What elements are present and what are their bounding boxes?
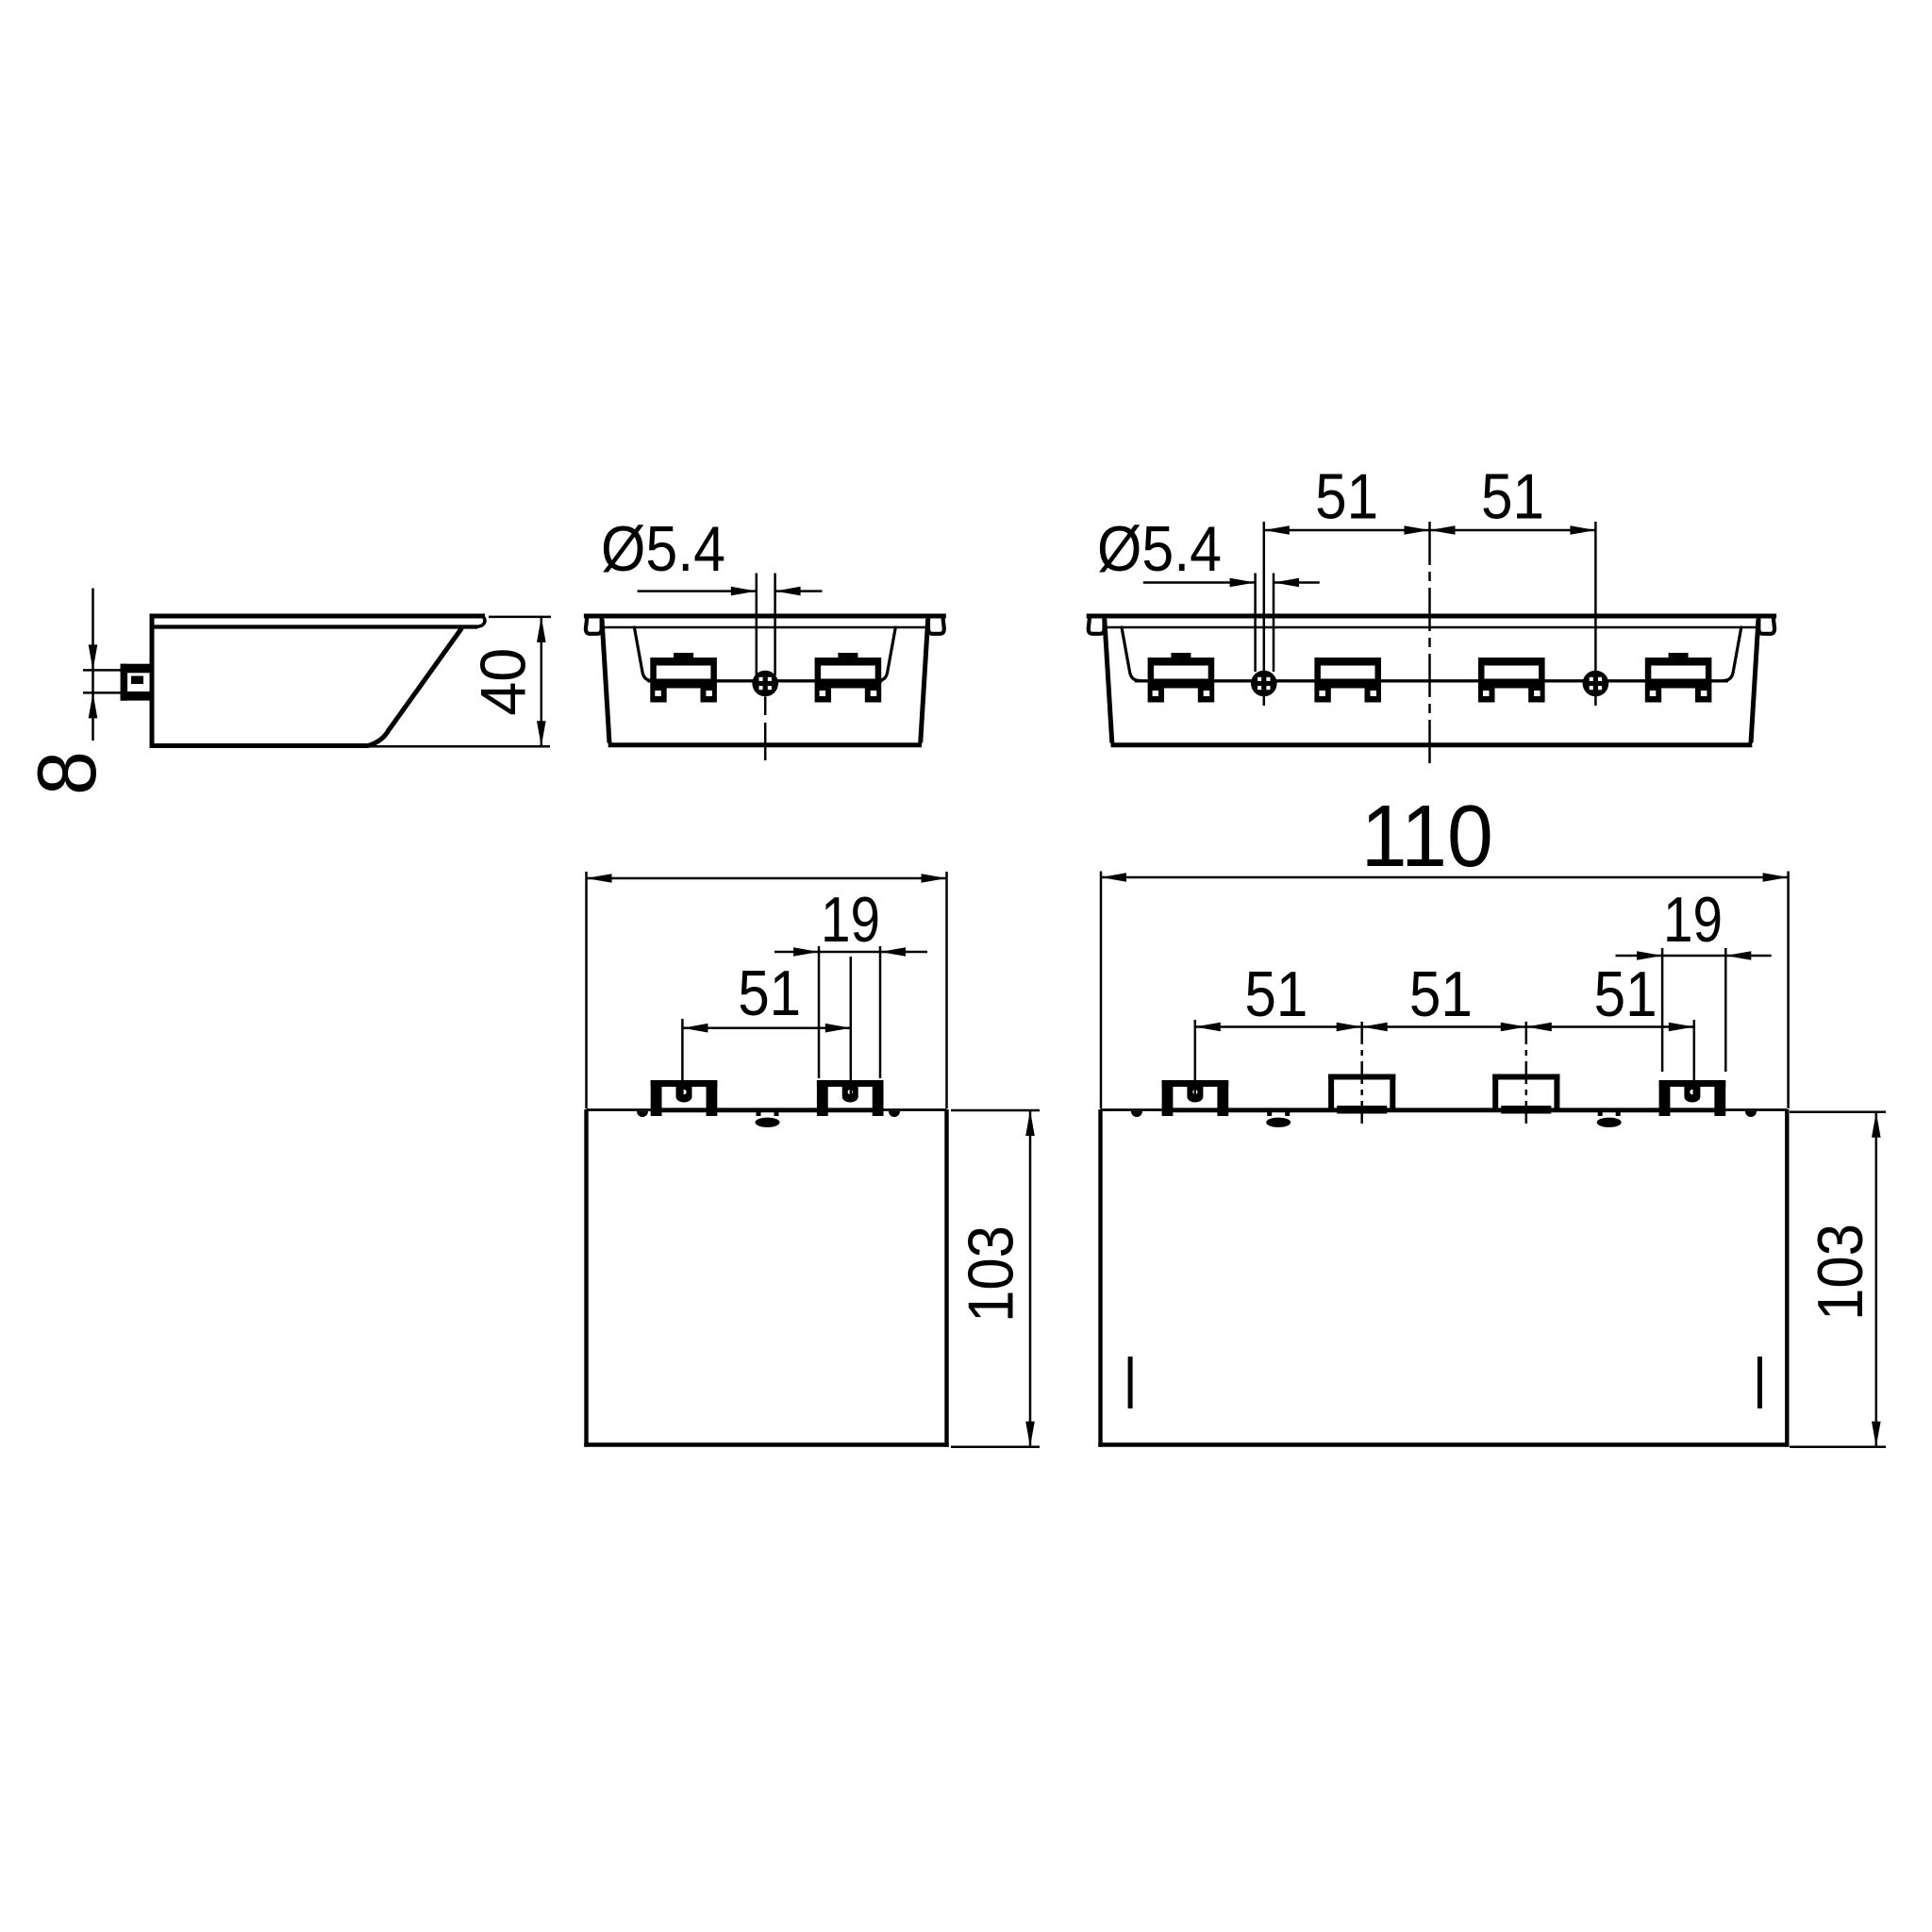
front double: view centerline dash-dot <box>1428 522 1431 764</box>
dim 19 double: arrow right <box>1637 951 1662 960</box>
front view single: inner tub left wall <box>634 627 652 681</box>
front view double: clip block 2 <box>1314 658 1381 689</box>
plan double: dip mark 2 <box>1598 1110 1603 1117</box>
dim diam5.4 single: dim line right tail <box>775 590 823 592</box>
dim 51-51 top: arrow right end <box>1570 525 1595 535</box>
front view double: left outer wall <box>1105 619 1112 743</box>
svg-text:103: 103 <box>956 1225 1027 1323</box>
front view single: right outer wall <box>921 619 928 743</box>
dim 51 single: arrow right <box>825 1024 851 1033</box>
dim 51x3: arrow right end <box>1669 1023 1694 1032</box>
front view single: inner tub right wall <box>877 627 895 681</box>
plan double: hash mark right <box>1757 1357 1762 1408</box>
plan single: top edge line center thick <box>651 1108 884 1112</box>
dim 51x3: arrow left end <box>1195 1023 1221 1032</box>
dim 110: ext left <box>1100 872 1103 1109</box>
dim diam5.4 double: dim line right tail <box>1274 581 1320 584</box>
side view: lid bottom line <box>152 625 477 628</box>
plan double: rect left edge <box>1098 1109 1102 1447</box>
svg-text:103: 103 <box>1805 1224 1876 1321</box>
dim 8: arrow down <box>89 644 98 670</box>
dim 103 single: dim line <box>1029 1110 1032 1447</box>
dim 8: arrow up <box>89 692 98 718</box>
front view double: left lip hook <box>1089 616 1105 634</box>
plan single: rect right edge <box>944 1109 948 1447</box>
plan double: edge bump left <box>1131 1111 1142 1117</box>
dim 51-51 top: arrows at center <box>1405 525 1430 535</box>
dim 51x3: ext left <box>1194 1020 1197 1096</box>
dim 19 single: ext left <box>818 946 821 1078</box>
plan single: center dip mark <box>757 1110 761 1117</box>
front double: hole1 centerline <box>1263 522 1266 706</box>
dim 19 single: dim line <box>774 951 927 954</box>
front double: hole2 centerline upper <box>1594 522 1597 675</box>
dim 103 double: top ext <box>1790 1111 1886 1114</box>
plan single: edge bump left <box>637 1111 648 1117</box>
dim diam5.4 double: dim line left tail <box>1143 581 1256 584</box>
dim 110: arrow right <box>1763 873 1789 882</box>
svg-text:110: 110 <box>1361 787 1493 885</box>
svg-text:Ø5.4: Ø5.4 <box>601 513 725 585</box>
dim 110: ext right <box>1787 872 1790 1109</box>
dim 8: lower extension line <box>83 691 121 694</box>
dim 19 single: arrow right <box>793 947 819 957</box>
front view double: inner tub right wall <box>1724 627 1741 681</box>
dim 40: dimension line <box>541 617 543 746</box>
dim diam5.4 double: arrow right <box>1230 578 1256 588</box>
front view double: inner tub left wall <box>1122 627 1140 681</box>
dim 103 double: arrow up <box>1872 1112 1881 1138</box>
plan double: top edge line left thin <box>1101 1108 1162 1111</box>
front view double: inner top line <box>1106 626 1758 629</box>
dim 103 single: arrow up <box>1025 1110 1035 1136</box>
dim 103 double: arrow down <box>1872 1422 1881 1447</box>
dim 103 single: bottom ext <box>951 1445 1040 1448</box>
svg-text:19: 19 <box>1663 884 1723 956</box>
svg-text:51: 51 <box>1594 958 1657 1030</box>
plan single: slotted tab 1 <box>651 1080 718 1087</box>
dim 51 single: arrow left <box>682 1024 708 1033</box>
front view double: clip block 1 <box>1148 658 1215 689</box>
dim 51x3: ext right <box>1693 1020 1696 1096</box>
front view single: inner top line <box>603 626 927 629</box>
plan double: dip mark 1 <box>1267 1110 1272 1117</box>
dim diam5.4 double: arrow left <box>1274 578 1299 588</box>
front view double: bottom line <box>1111 742 1753 747</box>
front view single: clip block 1 <box>650 658 717 689</box>
dim 19 single: ext right <box>879 946 882 1078</box>
front view single: left lip hook <box>586 616 602 634</box>
dim 19 double: arrow left <box>1725 951 1751 960</box>
dim 40: arrow down <box>537 721 546 746</box>
side view: left edge <box>150 614 155 748</box>
svg-text:19: 19 <box>821 884 880 956</box>
plan single: edge bump right <box>889 1111 900 1117</box>
front view single: top edge line <box>584 614 946 619</box>
plan single: rect bottom edge <box>584 1442 948 1446</box>
svg-text:51: 51 <box>1481 461 1544 533</box>
dim 51 single: ext left <box>681 1019 684 1096</box>
plan double: tab B centerline <box>1360 1022 1363 1129</box>
side view: slanted wall <box>369 629 461 746</box>
front view single: tub floor line <box>647 679 882 682</box>
plan double: edge bump right <box>1745 1111 1757 1117</box>
dim 103 single: arrow down <box>1025 1422 1035 1447</box>
plan single: top edge line left thin <box>587 1108 652 1111</box>
plan double: hash mark left <box>1128 1357 1133 1408</box>
dim 103 double: bottom ext <box>1790 1445 1886 1448</box>
dim 110: dim line <box>1101 876 1789 879</box>
dim diam5.4 single: dim line left tail <box>638 590 757 592</box>
plan double: rect right edge <box>1785 1109 1789 1447</box>
plan double: square tab C <box>1492 1074 1559 1080</box>
plan single: rect left edge <box>584 1109 588 1447</box>
front single: centerline below hole 2 <box>764 723 767 760</box>
plan double: top edge line right thin <box>1725 1108 1787 1111</box>
front view double: clip block 3 <box>1478 658 1545 689</box>
svg-text:40: 40 <box>467 648 539 716</box>
plan single: width ext right <box>945 872 948 1108</box>
dim diam5.4 single: arrow right <box>731 587 757 596</box>
dim 19 double: dim line <box>1616 955 1772 958</box>
side view: left tab body <box>121 664 150 674</box>
plan single: width arrow right <box>922 874 947 883</box>
front view single: left outer wall <box>602 619 609 743</box>
dim 19 double: ext right <box>1724 948 1727 1072</box>
dim diam5.4 single: right hole edge ext <box>774 574 776 676</box>
front view double: right outer wall <box>1751 619 1758 743</box>
svg-text:Ø5.4: Ø5.4 <box>1097 513 1222 585</box>
front view single: bottom line <box>608 742 922 747</box>
dim 103 double: dim line <box>1875 1112 1878 1447</box>
dim 51x3: dim line <box>1195 1025 1694 1028</box>
front view single: right lip hook <box>928 616 944 634</box>
plan single: slotted tab 2 <box>817 1080 884 1087</box>
plan double: slotted tab D <box>1659 1080 1726 1087</box>
plan double: square tab B <box>1328 1074 1395 1080</box>
side view: left tab bottom bar <box>121 691 150 701</box>
front view single: hole symbol 1 <box>752 671 778 697</box>
front double: hole2 centerline lower <box>1594 691 1597 706</box>
plan single: width arrow left <box>587 874 612 883</box>
dim 19 single: arrow left <box>880 947 906 957</box>
dim 51x3: arrows at B <box>1337 1023 1362 1032</box>
front view double: hole symbol 1 <box>1251 671 1277 697</box>
dim 51 single: ext right <box>850 957 853 1096</box>
svg-text:51: 51 <box>738 958 801 1029</box>
front view double: tub floor line <box>1135 679 1728 682</box>
front view double: top edge line <box>1087 614 1776 619</box>
dim 8: dimension line <box>92 589 94 741</box>
dim 51x3: arrows at C <box>1501 1023 1526 1032</box>
dim 40: top extension line <box>489 616 551 619</box>
plan single: width ext left <box>585 872 588 1108</box>
side view: bottom extension thin <box>369 745 550 748</box>
dim diam5.4 single: left hole edge ext <box>756 574 758 676</box>
side view: bottom line thick <box>150 743 370 748</box>
front view single: clip block 2 <box>815 658 882 689</box>
dim 8: upper extension line <box>83 669 121 672</box>
front single: centerline below hole <box>764 697 767 716</box>
side view: left tab left bar <box>121 664 128 701</box>
dim 51-51 top: dimension line <box>1264 529 1596 532</box>
dim 19 double: ext left <box>1661 948 1664 1072</box>
side view: lid top line <box>150 614 486 619</box>
side view: lid right tip curl <box>477 617 485 627</box>
plan double: slotted tab A <box>1162 1080 1229 1087</box>
dim diam5.4 double: right hole edge ext <box>1273 574 1275 673</box>
dim diam5.4 single: arrow left <box>775 587 801 596</box>
dim 40: arrow up <box>537 617 546 642</box>
front view double: hole symbol 2 <box>1583 671 1609 697</box>
plan double: top edge line center thick <box>1162 1108 1726 1112</box>
plan single: width dim line <box>587 877 947 880</box>
side view: left tab inner hook <box>131 676 143 685</box>
dim diam5.4 double: left hole edge ext <box>1254 574 1257 673</box>
svg-text:51: 51 <box>1315 461 1378 533</box>
dim 51 single: dim line <box>682 1026 850 1029</box>
dim 51-51 top: arrow left end <box>1264 525 1290 535</box>
front view double: clip block 4 <box>1645 658 1712 689</box>
plan single: top edge line right thin <box>884 1108 947 1111</box>
svg-text:51: 51 <box>1409 958 1473 1030</box>
front view double: right lip hook <box>1758 616 1774 634</box>
dim 103 single: top ext <box>951 1109 1040 1112</box>
plan double: tab C centerline <box>1525 1022 1528 1129</box>
plan double: rect bottom edge <box>1098 1442 1789 1446</box>
svg-text:8: 8 <box>20 751 113 795</box>
svg-text:51: 51 <box>1244 958 1307 1030</box>
dim 110: arrow left <box>1101 873 1126 882</box>
